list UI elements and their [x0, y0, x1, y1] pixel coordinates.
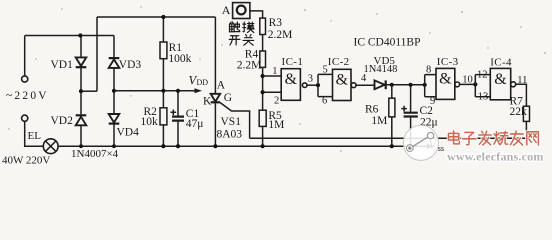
svg-text:G: G — [224, 92, 232, 104]
node IC2 input — [316, 83, 320, 87]
svg-text:VD4: VD4 — [117, 127, 140, 139]
terminal top circle — [22, 76, 28, 82]
VSS rail arrowhead — [427, 144, 435, 149]
svg-text:2: 2 — [274, 96, 279, 107]
svg-text:IC-1: IC-1 — [282, 56, 304, 68]
svg-text:R6: R6 — [365, 104, 379, 116]
node pin1 junction — [261, 74, 265, 78]
thyristor VS1 — [211, 17, 250, 146]
svg-text:&: & — [285, 71, 298, 88]
node VS1 K — [213, 144, 217, 148]
node pin2 junction — [261, 90, 265, 94]
wire VD3-VD4 — [113, 68, 115, 114]
svg-text:EL: EL — [28, 130, 42, 142]
wire IC2 out — [356, 84, 374, 86]
wire VD1-VD2 — [80, 67, 82, 114]
svg-text:A: A — [222, 3, 231, 17]
svg-text:IC-4: IC-4 — [490, 57, 512, 69]
svg-text:10k: 10k — [141, 116, 159, 128]
wire top rail — [97, 16, 215, 18]
svg-text:K: K — [203, 96, 212, 108]
svg-text:ss: ss — [438, 144, 444, 153]
wire pin1 — [263, 75, 282, 77]
wire IC3 staircase — [425, 75, 436, 97]
node VDD tap — [112, 89, 116, 93]
wire VD2 bottom — [80, 125, 82, 146]
wire gate rail — [250, 137, 527, 139]
svg-text:47μ: 47μ — [186, 118, 204, 130]
node C1 top — [176, 89, 180, 93]
svg-text:1N4007×4: 1N4007×4 — [71, 148, 119, 160]
svg-text:9: 9 — [430, 96, 435, 107]
node VD2 bottom — [79, 144, 83, 148]
VDD arrowhead — [195, 88, 203, 93]
wire touch to R3 — [250, 11, 263, 18]
node IC4 input — [473, 82, 477, 86]
svg-text:VD1: VD1 — [51, 59, 74, 71]
scan noise specks — [8, 6, 552, 152]
wire IC4 staircase — [475, 75, 490, 97]
diode VD5 — [375, 80, 386, 89]
wire left terminal drop — [24, 36, 26, 76]
svg-text:&: & — [439, 70, 452, 87]
svg-text:&: & — [336, 71, 349, 88]
node VD1 top — [78, 33, 82, 37]
svg-text:13: 13 — [478, 92, 489, 103]
resistor R5 — [259, 110, 266, 146]
svg-text:~220V: ~220V — [6, 90, 49, 102]
svg-text:1M: 1M — [371, 115, 387, 127]
node IC3 input — [423, 83, 427, 87]
node DC+ — [79, 89, 83, 93]
resistor R3 — [260, 18, 266, 51]
resistor R6 — [389, 85, 395, 146]
svg-text:A: A — [217, 80, 226, 92]
svg-text:IC-2: IC-2 — [328, 56, 350, 68]
wire VD4 bottom — [113, 124, 115, 147]
wire AC top rail — [25, 35, 114, 37]
svg-text:www.elecfans.com: www.elecfans.com — [447, 150, 544, 164]
resistor R4 — [260, 51, 266, 110]
svg-text:DD: DD — [197, 78, 209, 87]
wire IC4 out to R7 — [516, 84, 527, 106]
diode VD2 — [76, 115, 87, 125]
wire VDD rail — [114, 90, 196, 92]
op-amp gate IC-3 — [436, 68, 460, 99]
svg-text:2.2M: 2.2M — [237, 60, 262, 72]
diode VD4 — [109, 114, 120, 124]
wire VD1 branch top — [80, 36, 82, 58]
capacitor C2 — [401, 85, 418, 146]
svg-text:100k: 100k — [168, 53, 191, 65]
touch plate — [233, 3, 250, 19]
watermark text 电子发烧友网 — [448, 131, 538, 145]
wire lower-left — [25, 121, 44, 146]
node R5 bottom — [261, 144, 265, 148]
wire IC2 staircase — [318, 74, 333, 96]
wire VSS bottom rail — [58, 145, 429, 147]
resistor R1 — [160, 17, 167, 91]
diode VD3 — [109, 58, 120, 68]
wire VD5 to IC3 — [387, 84, 425, 86]
node C1 bottom — [176, 144, 180, 148]
wire IC1 out — [307, 84, 318, 86]
label switch chinese 开关 — [229, 34, 253, 45]
terminal bottom circle — [22, 115, 28, 121]
wire riser — [96, 17, 98, 91]
svg-text:6: 6 — [322, 96, 327, 107]
op-amp gate IC-4 — [490, 68, 515, 99]
svg-text:1M: 1M — [268, 119, 284, 131]
svg-text:VD3: VD3 — [119, 59, 142, 71]
capacitor C1 — [171, 91, 185, 146]
svg-text:IC-3: IC-3 — [437, 56, 459, 68]
svg-text:IC CD4011BP: IC CD4011BP — [354, 37, 421, 49]
label touch chinese 触摸 — [229, 22, 254, 33]
watermark logo circle — [403, 125, 438, 160]
node R2 bottom — [161, 144, 165, 148]
node R6 bottom — [390, 144, 394, 148]
svg-text:2.2M: 2.2M — [268, 29, 293, 41]
resistor R2 — [160, 91, 167, 146]
node C2 top — [409, 83, 413, 87]
svg-text:8: 8 — [426, 64, 431, 75]
svg-text:40W 220V: 40W 220V — [2, 155, 50, 167]
node VD4 bottom — [112, 144, 116, 148]
svg-text:3: 3 — [308, 74, 313, 85]
svg-text:1N4148: 1N4148 — [364, 64, 398, 75]
svg-text:1: 1 — [272, 66, 277, 77]
resistor R7 — [523, 106, 529, 138]
op-amp gate IC-2 — [333, 69, 357, 100]
svg-text:VD2: VD2 — [51, 115, 74, 127]
wire pin2 — [263, 91, 282, 93]
svg-text:VS1: VS1 — [221, 116, 242, 128]
svg-text:22k: 22k — [510, 106, 528, 118]
node R1 bottom — [161, 89, 165, 93]
wire VD3 branch top — [113, 36, 115, 58]
svg-text:R3: R3 — [269, 17, 283, 29]
wire jog to riser — [81, 90, 97, 92]
wire IC3 out — [460, 83, 476, 85]
svg-text:12: 12 — [477, 70, 488, 81]
node R6 top — [390, 83, 394, 87]
diode VD1 — [76, 57, 87, 67]
lamp EL — [43, 139, 58, 154]
node R1 top — [161, 15, 165, 19]
svg-text:8A03: 8A03 — [217, 129, 243, 141]
op-amp gate IC-1 — [281, 69, 307, 101]
svg-text:&: & — [494, 71, 507, 88]
